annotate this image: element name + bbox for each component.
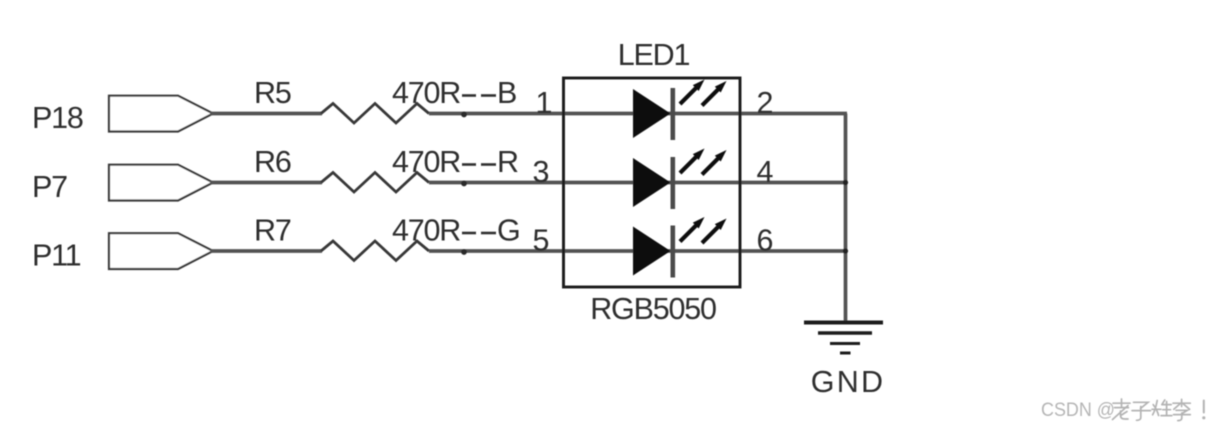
wire xyxy=(564,181,847,185)
svg-text:G: G xyxy=(497,214,520,248)
svg-text:CSDN @: CSDN @ xyxy=(1041,399,1115,421)
wire xyxy=(429,181,564,185)
net label G xyxy=(462,214,520,248)
wire xyxy=(210,112,322,116)
ground xyxy=(804,323,883,354)
wire xyxy=(564,112,847,116)
svg-text:2: 2 xyxy=(757,86,774,120)
wire (ground rail) xyxy=(844,114,848,323)
svg-text:LED1: LED1 xyxy=(618,38,690,72)
svg-text:P11: P11 xyxy=(32,239,81,273)
watermark CSDN xyxy=(1041,399,1115,421)
svg-text:GND: GND xyxy=(811,365,885,399)
junction xyxy=(843,248,848,253)
svg-text:R5: R5 xyxy=(254,76,291,110)
resistor R6 xyxy=(321,173,429,193)
wire xyxy=(210,249,322,253)
svg-text:3: 3 xyxy=(533,155,550,189)
LED element (blue chip) xyxy=(633,80,727,141)
net label B xyxy=(462,76,516,110)
wire xyxy=(564,249,847,253)
junction xyxy=(461,112,467,118)
svg-text:P7: P7 xyxy=(32,170,67,204)
svg-text:P18: P18 xyxy=(32,101,83,135)
junction xyxy=(461,181,467,187)
svg-text:R7: R7 xyxy=(254,214,291,248)
LED element (red chip) xyxy=(633,149,727,210)
junction xyxy=(461,249,467,255)
svg-text:R6: R6 xyxy=(254,145,291,179)
svg-text:RGB5050: RGB5050 xyxy=(590,292,716,326)
net label R xyxy=(462,145,518,179)
port connector P7 xyxy=(109,165,213,201)
junction xyxy=(843,180,848,185)
wire xyxy=(429,112,564,116)
svg-text:R: R xyxy=(497,145,518,179)
svg-text:470R: 470R xyxy=(392,145,460,179)
LED element (green chip) xyxy=(633,217,727,278)
watermark CJK text xyxy=(1113,399,1206,421)
svg-text:470R: 470R xyxy=(392,214,460,248)
port connector P11 xyxy=(109,233,213,269)
svg-text:470R: 470R xyxy=(392,76,460,110)
svg-text:B: B xyxy=(497,76,516,110)
wire xyxy=(429,249,564,253)
port connector P18 xyxy=(109,96,213,132)
LED package LED1 xyxy=(564,78,741,287)
svg-text:6: 6 xyxy=(757,224,774,258)
resistor R7 xyxy=(321,241,429,261)
svg-text:1: 1 xyxy=(536,86,553,120)
wire xyxy=(210,181,322,185)
svg-text:4: 4 xyxy=(757,155,774,189)
resistor R5 xyxy=(321,104,429,124)
svg-text:5: 5 xyxy=(533,224,550,258)
